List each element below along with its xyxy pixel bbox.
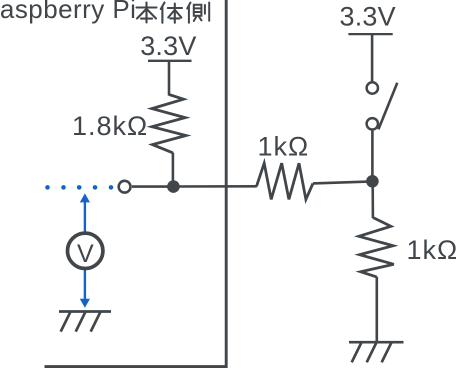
label kanji 側 (187, 3, 209, 23)
ground (right, below R3) (349, 342, 404, 362)
probe dotted lead (blue) (45, 185, 113, 190)
Raspberry Pi enclosure box (right + bottom edge) (45, 0, 227, 367)
svg-text:1kΩ: 1kΩ (407, 235, 459, 265)
switch blade (open) (378, 83, 397, 130)
wire: node A through enclosure wall to R2 (173, 185, 256, 188)
svg-text:3.3V: 3.3V (140, 31, 196, 61)
open terminal circle (GPIO pin) (119, 181, 131, 193)
switch SW top contact circle (367, 82, 378, 93)
label kanji 体 (161, 3, 182, 23)
svg-text:Raspberry Pi: Raspberry Pi (0, 0, 136, 24)
wire: node A to open terminal (132, 185, 173, 188)
svg-text:V: V (77, 240, 94, 268)
voltmeter arrow top head (80, 193, 90, 202)
voltmeter arrow shaft (blue, double-headed) (84, 202, 86, 300)
wire: left rail down to R1 (168, 61, 171, 96)
power rail bar (right 3.3V) (348, 33, 392, 35)
svg-text:3.3V: 3.3V (340, 2, 396, 32)
svg-text:1.8kΩ: 1.8kΩ (72, 111, 148, 141)
label kanji 本 (137, 3, 157, 23)
wire: switch to node B (371, 130, 374, 181)
wire: right rail to switch top contact (371, 34, 374, 82)
voltmeter V circle (68, 233, 103, 268)
node A junction dot (167, 180, 180, 193)
voltmeter arrow bottom head (80, 299, 90, 308)
switch SW bottom contact circle (367, 118, 378, 129)
resistor R2 1kΩ (series, horizontal) (257, 163, 313, 199)
power rail bar (left 3.3V) (148, 60, 192, 62)
resistor R1 1.8kΩ (pull-up) (152, 95, 186, 153)
resistor R3 1kΩ (pull-down, vertical) (359, 218, 394, 277)
node B junction dot (366, 175, 379, 188)
wire: node B to R3 (371, 181, 374, 218)
wire: R3 to ground (375, 277, 378, 343)
wire: R2 to node B (313, 181, 373, 183)
wire: R1 to node A (172, 153, 175, 187)
svg-text:1kΩ: 1kΩ (258, 132, 310, 162)
ground (measurement reference, left) (59, 312, 111, 332)
